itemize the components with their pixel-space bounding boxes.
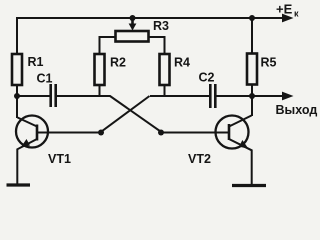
- svg-text:к: к: [294, 9, 299, 19]
- VT1 emitter arrow: [21, 139, 31, 148]
- node junction dot rail R3 wiper: [130, 15, 136, 21]
- transistor VT2: [216, 116, 252, 186]
- wire diagonal C1 node to VT2 base junction: [110, 96, 161, 132]
- R3 wiper arrow: [129, 18, 137, 31]
- wire C1 right plate to R2 foot: [57, 95, 111, 97]
- wire R1 bottom lead: [16, 85, 18, 97]
- svg-text:C1: C1: [37, 72, 53, 86]
- wire R3 left lead to R2: [100, 37, 116, 54]
- svg-text:Выход: Выход: [276, 103, 318, 117]
- node VT1 base junction dot: [98, 130, 104, 136]
- resistor R1: [12, 54, 22, 85]
- resistor R2: [95, 54, 105, 85]
- svg-text:R1: R1: [28, 55, 44, 69]
- svg-text:VT1: VT1: [48, 152, 71, 166]
- svg-text:VT2: VT2: [188, 152, 211, 166]
- wire diagonal R4 foot to VT1 base junction: [101, 96, 150, 132]
- transistor VT1: [16, 116, 48, 186]
- capacitor C1: [49, 84, 57, 107]
- svg-text:R4: R4: [174, 56, 190, 70]
- ground right: [232, 184, 266, 187]
- VT2 emitter arrow: [239, 140, 249, 149]
- wire VT1 collector node horizontal to C1: [16, 95, 50, 97]
- wire VT2 collector vertical: [251, 96, 253, 116]
- svg-text:R3: R3: [153, 19, 169, 33]
- wire R4 bottom lead: [164, 85, 166, 96]
- svg-text:C2: C2: [199, 71, 215, 85]
- arrowhead +Ek supply: [282, 14, 294, 23]
- resistor R5: [247, 54, 257, 85]
- arrowhead output: [282, 92, 294, 101]
- wire R5 bottom lead: [251, 84, 253, 97]
- capacitor C2: [209, 84, 217, 108]
- potentiometer R3 body: [116, 31, 149, 42]
- wire R4 foot to C2: [150, 95, 210, 97]
- wire C2 right plate to VT2 collector node: [217, 95, 254, 97]
- svg-text:R5: R5: [261, 56, 277, 70]
- wire output arrow shaft: [253, 95, 284, 97]
- resistor R4: [160, 54, 170, 85]
- wire R3 right lead to R4: [149, 37, 165, 54]
- svg-text:R2: R2: [110, 56, 126, 70]
- wire R5 top lead from rail: [251, 18, 253, 54]
- wire VT1 collector vertical: [16, 96, 18, 118]
- node D VT2 collector dot: [249, 93, 255, 99]
- svg-text:+E: +E: [276, 2, 293, 17]
- wire VT2 base lead: [161, 132, 228, 134]
- node VT2 base junction dot: [158, 130, 164, 136]
- node A VT1 collector dot: [14, 93, 20, 99]
- wire top supply rail: [17, 17, 284, 19]
- wire R2 bottom lead: [99, 85, 101, 96]
- wire left vertical from rail to R1: [16, 17, 18, 54]
- ground left: [7, 183, 31, 186]
- node junction dot rail R5: [249, 15, 255, 21]
- wire VT1 base lead: [38, 132, 101, 134]
